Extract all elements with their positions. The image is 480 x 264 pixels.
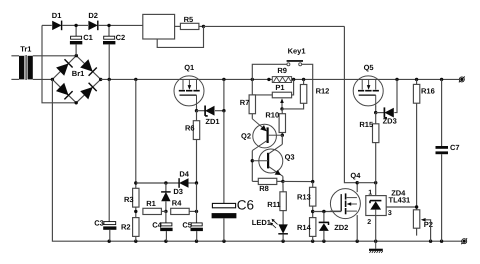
- wire R10 to Q2 base node: [281, 133, 283, 136]
- svg-text:ZD1: ZD1: [205, 117, 219, 126]
- wire down to C6: [223, 111, 225, 204]
- diode D3: [161, 192, 170, 201]
- wire rail to R16: [416, 79, 418, 84]
- wire gate node to R15: [375, 113, 377, 124]
- resistor R4: [171, 208, 190, 214]
- wire rail to R12: [303, 79, 305, 84]
- capacitor C3: [104, 222, 116, 225]
- svg-text:R13: R13: [297, 192, 311, 201]
- zener diode ZD2: [319, 222, 329, 231]
- svg-text:R3: R3: [124, 195, 134, 204]
- resistor R2: [133, 218, 139, 237]
- svg-text:R4: R4: [172, 199, 182, 208]
- resistor R11: [280, 192, 286, 211]
- capacitor C1: [71, 36, 82, 39]
- wire node to C5: [196, 211, 198, 223]
- svg-text:3: 3: [388, 210, 392, 217]
- svg-text:Q4: Q4: [350, 171, 361, 180]
- node bridge bottom: [75, 101, 78, 104]
- node bottom rail-C3: [108, 240, 111, 243]
- wire R1 to node: [161, 210, 166, 212]
- svg-text:R14: R14: [297, 223, 312, 232]
- wire P1 left to R7 line: [252, 94, 272, 96]
- svg-text:R12: R12: [316, 87, 330, 96]
- resistor R7: [249, 95, 255, 114]
- svg-text:Br1: Br1: [72, 69, 85, 78]
- svg-text:R11: R11: [267, 200, 280, 209]
- wire Q4 drain node down: [356, 183, 358, 192]
- node R13-Key1: [311, 180, 314, 183]
- wire Q4 source to bottom rail: [356, 215, 358, 241]
- node rail-ZD1/C6: [222, 78, 225, 81]
- wire R15 down to pin1 node: [375, 143, 377, 183]
- wire gate node to ZD3: [376, 112, 385, 114]
- wire R11 to LED1: [282, 211, 284, 225]
- resistor R1: [143, 208, 162, 214]
- node R3-R2-R1: [134, 210, 137, 213]
- diode D1: [52, 21, 61, 30]
- wire gate node to R6: [196, 111, 198, 121]
- ground: [369, 241, 383, 253]
- node rail-R12: [302, 78, 305, 81]
- wire D4 anode to R6 line: [189, 182, 197, 184]
- zener diode ZD3: [384, 108, 393, 118]
- capacitor C7: [436, 146, 449, 154]
- wire C7 to bottom rail: [441, 154, 443, 241]
- wire node to ZD2: [323, 212, 325, 223]
- wire C4 to bottom rail: [165, 231, 167, 241]
- node R1-R4-C4: [164, 210, 167, 213]
- transistor Q2: [252, 119, 282, 151]
- wire ZD3 anode up to rail: [394, 79, 397, 112]
- node bridge left: [51, 78, 54, 81]
- node rail-C7: [440, 78, 443, 81]
- wire main rail left section: [101, 78, 273, 80]
- resistor R12: [300, 85, 306, 104]
- wire wiper node to R10: [281, 109, 283, 114]
- bridge diode L-T (points to top): [56, 63, 69, 75]
- wire node to R13: [312, 182, 314, 188]
- terminal output negative: [461, 238, 467, 244]
- node rail-R9 left: [267, 78, 270, 81]
- node bottom rail-R2: [134, 240, 137, 243]
- wire D1-D2 node down to C1: [75, 25, 77, 36]
- svg-text:Q1: Q1: [184, 63, 194, 72]
- wire rail to ZD1 node: [223, 79, 225, 110]
- wire R7 to Q2 emitter: [251, 114, 253, 119]
- resistor R16: [413, 84, 419, 103]
- wire rail down to C7: [441, 79, 443, 146]
- node wiper/R10/R12: [280, 107, 283, 110]
- terminal output positive: [459, 77, 465, 83]
- node R5 output: [202, 25, 205, 28]
- svg-text:Tr1: Tr1: [20, 45, 31, 54]
- wire R12 bottom to wiper node: [282, 103, 304, 109]
- node rail-R7/Key1: [251, 78, 254, 81]
- wire R3 to R2: [135, 207, 137, 218]
- wire R4 to C5 node: [189, 210, 196, 212]
- wire P2 wiper to bottom rail: [426, 220, 431, 241]
- wire C1 node to D2 anode: [76, 24, 88, 26]
- node R10-Q2 base-Q3 collector: [281, 134, 284, 137]
- wire P1 wiper down: [281, 103, 283, 109]
- resistor R14: [310, 218, 316, 237]
- wire C6 to bottom rail: [223, 218, 225, 241]
- wire transformer primary bottom stub: [11, 78, 19, 80]
- node rail-ZD3: [395, 78, 398, 81]
- svg-text:R10: R10: [265, 111, 279, 120]
- node bridge right: [99, 78, 102, 81]
- node Q4 drain: [356, 181, 359, 184]
- svg-text:R8: R8: [259, 184, 269, 193]
- wire Q2 collector down to R8: [251, 151, 253, 182]
- zener symbol inside TL431: [370, 201, 381, 216]
- wire pin2 to bottom rail: [375, 216, 377, 242]
- wire rail down to C3: [108, 79, 110, 221]
- svg-text:P1: P1: [275, 83, 284, 92]
- wire box to R5: [175, 25, 181, 27]
- wire gate line to Q4: [313, 211, 342, 213]
- wire R16 down to P2: [416, 103, 418, 210]
- svg-text:R15: R15: [359, 120, 373, 129]
- wire Q4 node to ZD4 pin1 node: [357, 182, 376, 184]
- bridge diode T-R (points to right): [80, 59, 93, 71]
- wire R5 to rail junction: [199, 25, 204, 27]
- node bottom rail-C4: [164, 240, 167, 243]
- bridge Br1 outline: [52, 56, 100, 103]
- node bottom rail-C6: [222, 240, 225, 243]
- svg-text:C5: C5: [182, 221, 192, 230]
- node rail-R16: [415, 78, 418, 81]
- wire Q5 gate down: [375, 106, 377, 113]
- svg-text:Q5: Q5: [364, 63, 374, 72]
- node ZD2-gate line: [322, 210, 325, 213]
- wire C5 to bottom rail: [196, 231, 198, 241]
- node R4-C5: [195, 210, 198, 213]
- wire to D3: [165, 183, 167, 192]
- wire node to C4: [165, 211, 167, 223]
- resistor R9: [272, 77, 291, 83]
- svg-text:R6: R6: [185, 123, 195, 132]
- wire y183 D3/D4 line: [136, 182, 179, 184]
- node rail-R3: [134, 78, 137, 81]
- node R8-Q3e-R11: [281, 180, 284, 183]
- node bottom rail-ZD2: [322, 240, 325, 243]
- node bottom rail-P2 wiper: [429, 240, 432, 243]
- potentiometer P2 wiper arrow: [421, 218, 426, 222]
- svg-text:D4: D4: [179, 170, 189, 179]
- node Q5 gate/ZD3/R15: [374, 111, 377, 114]
- capacitor C6: [212, 203, 237, 218]
- svg-text:C6: C6: [237, 197, 254, 212]
- wire C1 to bridge top: [75, 44, 77, 55]
- svg-text:ZD3: ZD3: [383, 117, 397, 126]
- node bottom rail-C7: [440, 240, 443, 243]
- svg-text:Q3: Q3: [285, 153, 295, 162]
- wire D3 to R1/R4 node: [165, 201, 167, 211]
- wire top rail down to Q4 drain node: [344, 26, 357, 182]
- resistor R13: [310, 187, 316, 206]
- node bottom rail-LED1: [281, 240, 284, 243]
- wire C2 node to control box: [109, 24, 143, 26]
- potentiometer P1 body: [272, 92, 291, 98]
- node R13-R14-gate line: [311, 210, 314, 213]
- wire Q3 collector up to base node: [281, 135, 283, 144]
- svg-text:R2: R2: [121, 223, 131, 232]
- diode D2: [88, 21, 97, 30]
- wire pin1 node to TL431: [375, 183, 377, 201]
- wire node to R13 top node: [283, 180, 313, 182]
- wire D2 cathode to C2 node: [99, 24, 109, 26]
- transistor Q1: [174, 76, 204, 107]
- node rail-C2/C3: [108, 78, 111, 81]
- node Q2 collector-Q3 base: [251, 159, 254, 162]
- node D3 top: [164, 181, 167, 184]
- svg-text:C2: C2: [116, 33, 126, 42]
- svg-text:R7: R7: [240, 98, 250, 107]
- svg-text:D1: D1: [52, 11, 62, 20]
- svg-text:Q2: Q2: [241, 132, 251, 141]
- wire ZD2 to bottom rail: [323, 231, 325, 241]
- wire pin3 to P2 node: [386, 206, 416, 208]
- resistor R15: [373, 124, 379, 143]
- node bridge top: [75, 54, 78, 57]
- svg-text:C3: C3: [94, 219, 104, 228]
- node D4-R6 line: [195, 181, 198, 184]
- transistor Q4: [330, 189, 361, 219]
- wire P2 bottom stub: [416, 228, 418, 235]
- wire R14 to bottom rail: [312, 236, 314, 241]
- bridge diode L-B (points to bottom): [56, 83, 69, 95]
- control box U1: [143, 14, 175, 39]
- svg-text:TL431: TL431: [389, 195, 411, 204]
- wire Key1 left to rail node A: [252, 64, 287, 79]
- node D2-C2 junction: [107, 24, 110, 27]
- svg-text:R5: R5: [184, 15, 194, 24]
- wire gate node to ZD1: [197, 110, 206, 112]
- transistor Q5: [353, 76, 383, 107]
- node bottom rail-C5: [195, 240, 198, 243]
- resistor R8: [258, 178, 277, 184]
- wire main rail right section: [292, 78, 460, 80]
- zener diode ZD1: [205, 106, 214, 116]
- wire Q3 emitter down to R8 node: [282, 176, 284, 181]
- svg-text:C7: C7: [450, 143, 460, 152]
- capacitor C2: [104, 36, 115, 39]
- node ZD1-C6: [222, 109, 225, 112]
- potentiometer P1 wiper arrow: [280, 98, 284, 103]
- transformer Tr1: [19, 55, 33, 80]
- svg-text:C1: C1: [83, 33, 93, 42]
- transistor Q3: [252, 144, 283, 176]
- node bottom rail-Q4: [356, 240, 359, 243]
- node bottom rail-GND: [374, 240, 377, 243]
- wire R13 to R14: [312, 206, 314, 218]
- wire transformer primary top stub: [11, 55, 19, 57]
- wire Q2 collector line to R8: [252, 180, 258, 182]
- svg-text:2: 2: [367, 219, 371, 226]
- svg-text:D2: D2: [88, 11, 98, 20]
- wire bottom rail: [52, 79, 461, 241]
- wire secondary bottom to bridge left corner: [33, 78, 53, 80]
- node R16-P2-pin3: [415, 205, 418, 208]
- wire Key1 right down to R13 node: [302, 64, 313, 181]
- svg-text:R1: R1: [146, 199, 156, 208]
- wire C2 to main rail: [108, 44, 110, 79]
- wire feedback box bottom to R5 output: [157, 26, 203, 47]
- wire top rail right section: [204, 25, 345, 27]
- wire D2 node down to C2: [108, 25, 110, 36]
- wire D1 cathode to C1 node: [63, 24, 77, 26]
- resistor R3: [133, 188, 139, 207]
- svg-text:ZD2: ZD2: [334, 223, 348, 232]
- wire R8 to node: [277, 180, 283, 182]
- node bottom rail-R14: [311, 240, 314, 243]
- svg-text:R9: R9: [277, 66, 287, 75]
- wire D1 anode down to bridge bottom corner: [42, 25, 76, 102]
- wire D4 node down to R4 node: [196, 183, 198, 211]
- capacitor C4: [161, 223, 172, 226]
- LED1 light arrows: [270, 219, 278, 228]
- wire LED1 to bottom rail: [282, 234, 284, 241]
- wire Q1 gate down: [196, 106, 198, 111]
- wire R2 to bottom rail: [135, 236, 137, 241]
- wire top rail to D1 anode: [42, 24, 52, 26]
- svg-text:1: 1: [368, 190, 372, 197]
- LED LED1: [278, 224, 287, 233]
- potentiometer P2 body: [413, 210, 419, 228]
- svg-text:LED1: LED1: [252, 218, 271, 227]
- wire R6 to D4 node: [196, 140, 198, 183]
- bridge diode B-R (points to right): [80, 87, 93, 99]
- node D1-D2 junction: [74, 24, 77, 27]
- node R3 top / y183 line: [134, 181, 137, 184]
- svg-text:D3: D3: [173, 187, 183, 196]
- wire secondary top to bridge top corner: [33, 55, 77, 57]
- pushbutton Key1: [287, 60, 303, 66]
- wire C3 to bottom rail: [109, 230, 111, 241]
- resistor R5: [180, 23, 199, 29]
- node ZD4 pin1/R15: [374, 181, 377, 184]
- resistor R10: [279, 114, 285, 133]
- svg-text:R16: R16: [421, 87, 435, 96]
- wire node down to R11: [282, 181, 284, 191]
- capacitor C5: [191, 223, 202, 226]
- wire rail node A down to R7: [251, 79, 253, 95]
- svg-text:C4: C4: [152, 221, 162, 230]
- node Q1 gate/ZD1/R6: [195, 109, 198, 112]
- node rail-R9 right/P1: [292, 78, 295, 81]
- wire rail down to R3: [135, 79, 137, 188]
- IC ZD4 TL431 box: [366, 196, 386, 216]
- diode D4: [179, 178, 188, 187]
- wire ZD1 to C6 line: [215, 110, 224, 112]
- wire P1 right up to rail: [292, 79, 294, 95]
- svg-text:Key1: Key1: [288, 46, 306, 55]
- resistor R6: [193, 121, 199, 140]
